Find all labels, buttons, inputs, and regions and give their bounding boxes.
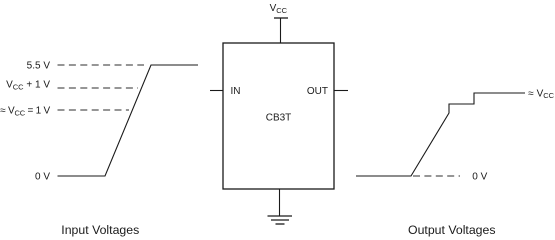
svg-text:Output Voltages: Output Voltages — [408, 223, 496, 237]
svg-text:5.5 V: 5.5 V — [27, 61, 51, 72]
svg-text:VCC: VCC — [270, 3, 288, 15]
svg-text:OUT: OUT — [307, 86, 328, 97]
svg-text:VCC + 1 V: VCC + 1 V — [6, 80, 50, 92]
svg-text:≈ VCC = 1 V: ≈ VCC = 1 V — [0, 106, 50, 118]
svg-text:IN: IN — [231, 86, 241, 97]
svg-text:CB3T: CB3T — [266, 113, 292, 124]
svg-text:0 V: 0 V — [472, 172, 487, 183]
svg-text:≈ VCC: ≈ VCC — [528, 88, 554, 100]
svg-text:Input Voltages: Input Voltages — [61, 223, 139, 237]
svg-text:0 V: 0 V — [35, 172, 50, 183]
